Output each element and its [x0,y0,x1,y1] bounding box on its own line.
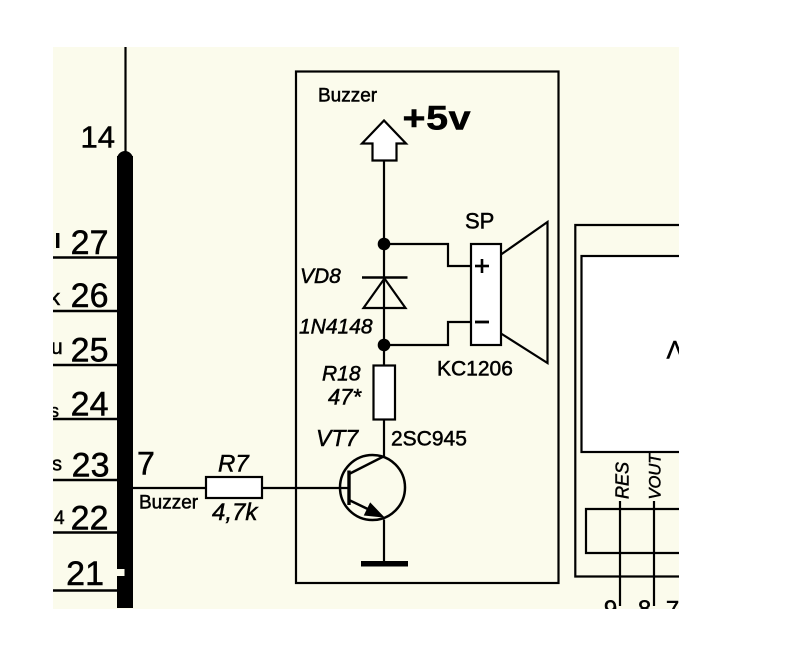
LCD pin wire 1 [619,501,621,606]
svg-text:SP: SP [465,209,494,234]
pin 22 wire [53,531,117,534]
resistor R18 [374,366,396,420]
svg-text:R18: R18 [322,363,361,386]
label VD8 [300,265,341,288]
LCD connector strip [586,509,679,553]
svg-text:VD8: VD8 [300,265,341,288]
svg-text:KC1206: KC1206 [437,358,513,381]
clipped net name fragment at pin 26 [49,285,61,310]
pin 21 wire [53,589,117,592]
svg-text:2SC945: 2SC945 [391,428,467,451]
LCD pin number 7 (clipped) [666,597,679,624]
svg-text:21: 21 [66,555,104,593]
wire: node A to speaker plus [384,244,471,266]
value 47* [328,385,362,410]
junction node B (bottom) [378,339,391,352]
speaker plus terminal mark [475,259,489,273]
wire: +5v down through diode to node B [383,161,385,367]
svg-text:s: s [52,454,62,476]
label R18 [322,363,361,386]
wire: node B to speaker minus [384,322,471,345]
bus bar (thick vertical net) [116,151,134,608]
value KC1206 [437,358,513,381]
speaker SP (KC1206) [471,222,548,363]
buzzer module box [296,72,559,584]
net label Buzzer (left) [139,493,199,514]
pin 25 wire [53,364,117,367]
clipped net name fragment at pin 23 [52,454,62,476]
svg-text:4,7k: 4,7k [212,499,259,526]
svg-text:7: 7 [137,446,155,482]
label SP [465,209,494,234]
clipped net name fragment at pin 24 [50,401,59,421]
pin 23 label [72,447,110,485]
junction node A (top) [378,238,391,251]
white crop overlays [0,0,53,653]
svg-text:Buzzer: Buzzer [139,493,199,514]
display glyph (clipped M) [667,337,684,365]
wire: bus to R7 [133,487,206,489]
pin 24 wire [53,418,117,421]
pin 26 label [71,277,109,315]
pin 24 label [71,386,109,424]
pin name VOUT (rotated) [647,452,665,500]
svg-text:4: 4 [54,508,65,529]
node label 7 (buzzer output pin) [137,446,155,482]
svg-text:Buzzer: Buzzer [318,86,378,107]
label R7 [218,451,250,478]
svg-text:25: 25 [71,332,109,370]
svg-text:47*: 47* [328,385,362,410]
title Buzzer [318,86,378,107]
svg-text:24: 24 [71,386,109,424]
svg-text:VT7: VT7 [316,425,359,451]
LCD pin wire 2 [653,501,655,606]
clipped net name fragment at pin 27 [56,233,59,248]
diode VD8 [362,278,408,309]
svg-text:26: 26 [71,277,109,315]
pin 27 label [71,224,109,262]
svg-text:1N4148: 1N4148 [299,316,373,339]
svg-text:23: 23 [72,447,110,485]
clipped net name fragment at pin 25 [51,336,63,359]
node label 14 [81,120,115,155]
LCD module outer box [575,225,679,577]
+5v power arrow symbol [362,121,406,161]
wire: R7 to VT7 base [262,487,348,489]
pin 21 label [66,555,104,593]
pin 26 wire [53,310,117,313]
wire: MCU pin 14 stub to bus bar [124,47,126,156]
svg-text:14: 14 [81,120,115,155]
svg-text:+5v: +5v [403,99,472,137]
label VT7 [316,425,359,451]
pin 25 label [71,332,109,370]
clipped net name fragment at pin 22 [54,508,65,529]
LCD pin number 9 (clipped) [604,596,617,623]
LCD pin number 8 (clipped) [638,596,651,623]
svg-text:R7: R7 [218,451,250,478]
scanned schematic cream background [53,47,679,609]
ground [361,561,408,567]
svg-text:VOUT: VOUT [647,452,665,500]
pin 23 wire [53,479,117,482]
value 2SC945 [391,428,467,451]
svg-text:27: 27 [71,224,109,262]
wire: VT7 emitter to ground [383,520,385,563]
resistor R7 [206,477,262,498]
label +5v [403,99,472,137]
pin 27 wire [53,256,117,259]
pin 22 label [71,500,109,538]
pin name RES (rotated) [613,462,633,499]
value 4,7k [212,499,259,526]
value 1N4148 [299,316,373,339]
speaker minus terminal mark [475,321,489,324]
wire: R18 to VT7 collector [383,420,385,458]
pin name fragment (rotated, clipped) [676,464,695,499]
svg-text:22: 22 [71,500,109,538]
transistor VT7 [340,455,405,520]
svg-text:RES: RES [613,462,633,499]
LCD module inner display window [582,256,692,452]
